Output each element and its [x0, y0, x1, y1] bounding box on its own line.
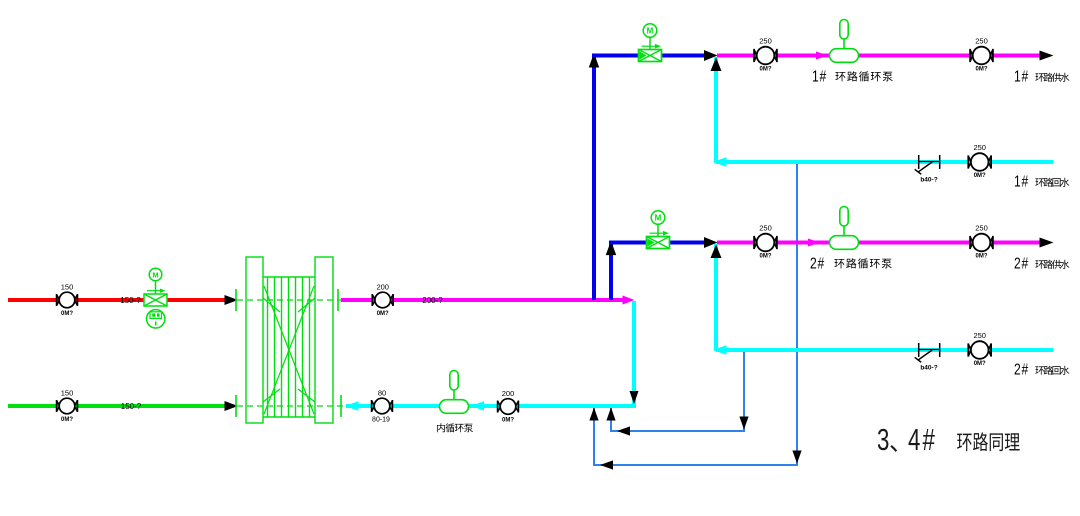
svg-text:2#: 2#: [1014, 360, 1029, 378]
pipe: drop from header to pump suction (cyan): [632, 301, 636, 406]
pipe label 150-?: [121, 402, 142, 411]
svg-text:200: 200: [376, 283, 389, 292]
pipe: primary return (green): [8, 404, 225, 408]
flow arrow up into loop 1 junction: [711, 58, 722, 72]
svg-text:4: 4: [908, 423, 921, 457]
svg-text:150-?: 150-?: [121, 402, 142, 411]
valve DN200 on suction line: [498, 389, 519, 424]
svg-text:0M?: 0M?: [760, 67, 772, 73]
svg-text:250: 250: [975, 224, 988, 233]
svg-text:2#: 2#: [1014, 254, 1029, 272]
flow arrow left at loop 2 return corner: [713, 345, 727, 355]
svg-text:150: 150: [61, 389, 74, 398]
motorized control valve with positioner on hot supply: [144, 268, 167, 328]
svg-text:b40-?: b40-?: [920, 365, 937, 372]
label: loop 1 supply water: [1014, 67, 1069, 85]
svg-text:3: 3: [877, 423, 889, 457]
flow arrow left on bypass line 2: [617, 426, 630, 435]
label: loop 1 return water: [1014, 172, 1069, 190]
flow arrow up riser 2: [606, 241, 616, 256]
valve DN250 loop 2 supply (pump inlet): [754, 224, 777, 260]
flow arrow into loop 1 pump (magenta): [816, 52, 828, 60]
bypass line from loop-2 return to mixing header (thin blue): [611, 350, 744, 431]
pipe: loop 2 supply after junction (magenta): [717, 241, 1040, 245]
label: loop 2 circulation pump: [810, 254, 892, 272]
svg-text:250: 250: [759, 37, 772, 46]
svg-text:250: 250: [973, 331, 986, 340]
pipe: loop 1 supply (blue): [592, 54, 704, 58]
flow arrow into heat exchanger (cold side outlet): [225, 401, 239, 411]
svg-text:80-19: 80-19: [372, 417, 390, 424]
pipe: loop 2 return (cyan): [716, 348, 1053, 352]
flow arrow down on bypass line 2: [739, 417, 748, 430]
svg-text:0M?: 0M?: [974, 173, 986, 179]
pipe: internal circulation suction line (cyan): [346, 404, 636, 408]
svg-text:M: M: [152, 270, 158, 279]
loop 1 circulation pump: [830, 20, 859, 63]
pipe: loop 1 return (cyan): [716, 160, 1053, 164]
valve DN200 on outlet header: [372, 283, 393, 318]
svg-text:250: 250: [759, 224, 772, 233]
pipe: loop 1 supply after junction (magenta): [717, 54, 1040, 58]
flow arrow at loop 2 mixing junction: [704, 237, 718, 248]
svg-text:0M?: 0M?: [760, 254, 772, 260]
svg-text:200: 200: [502, 389, 515, 398]
pipe label 200-?: [422, 296, 443, 305]
valve DN150 on primary return: [57, 389, 78, 424]
strainer on loop 2 return: [915, 343, 940, 372]
valve DN250 loop 1 supply (pump outlet): [970, 37, 993, 73]
svg-text:200-?: 200-?: [422, 296, 443, 305]
valve DN250 loop 1 supply (pump inlet): [754, 37, 777, 73]
svg-text:0M?: 0M?: [974, 361, 986, 367]
flow arrow loop 2 supply outlet: [1040, 238, 1054, 248]
svg-text:1#: 1#: [812, 67, 827, 85]
svg-text:250: 250: [975, 37, 988, 46]
flow arrow into loop 2 pump (magenta): [808, 239, 820, 247]
flow arrow left on bypass line 1: [600, 460, 613, 469]
flow arrow into heat exchanger (cyan): [345, 401, 359, 411]
note: loops 3 and 4 are similar: [877, 423, 1020, 457]
svg-text:0M?: 0M?: [502, 418, 514, 424]
svg-text:2#: 2#: [810, 254, 825, 272]
motorized control valve loop 1: [639, 24, 662, 62]
pipe: loop 1 return riser at junction (cyan): [714, 57, 718, 162]
flow arrow up into suction header (bypass 1): [589, 408, 598, 421]
svg-text:1#: 1#: [1014, 172, 1029, 190]
svg-text:1#: 1#: [1014, 67, 1029, 85]
svg-text:#: #: [923, 423, 936, 457]
flow arrow up riser 1: [589, 53, 599, 68]
flow arrow up into suction header (bypass 2): [606, 408, 615, 421]
flow arrow into heat exchanger (hot side): [225, 295, 239, 305]
flow arrow down on bypass line 1: [792, 451, 801, 464]
label: loop 1 circulation pump: [812, 67, 893, 85]
flow arrow loop 1 supply outlet: [1040, 51, 1054, 61]
valve DN80 on suction line: [372, 389, 393, 424]
svg-text:150: 150: [61, 283, 74, 292]
svg-text:0M?: 0M?: [377, 311, 389, 317]
internal circulation pump: [440, 371, 469, 414]
svg-text:0M?: 0M?: [61, 417, 73, 423]
pipe: supply riser to loop 2 (blue): [609, 241, 613, 300]
label: loop 2 return water: [1014, 360, 1069, 378]
flow arrow at loop 1 mixing junction: [704, 50, 718, 61]
svg-text:0M?: 0M?: [976, 67, 988, 73]
loop 2 circulation pump: [830, 207, 859, 250]
pipe: primary hot supply (red): [8, 298, 225, 302]
motorized control valve loop 2: [647, 211, 670, 249]
flow arrow into pump (cyan): [471, 401, 484, 411]
svg-text:0M?: 0M?: [976, 254, 988, 260]
strainer on loop 1 return: [915, 155, 940, 184]
flow arrow down into suction line: [630, 391, 639, 404]
svg-text:b40-?: b40-?: [920, 177, 937, 184]
valve DN250 loop 1 return: [968, 143, 991, 179]
valve DN150 on hot supply: [57, 283, 78, 318]
flow arrow on outlet header end: [623, 296, 635, 305]
valve DN250 loop 2 supply (pump outlet): [970, 224, 993, 260]
pipe: heat exchanger outlet header DN200 (magenta): [341, 298, 623, 302]
valve DN250 loop 2 return: [968, 331, 991, 367]
svg-text:80: 80: [378, 389, 386, 398]
pipe: loop 2 supply (blue): [609, 241, 704, 245]
pipe label 150-?: [120, 296, 141, 305]
svg-text:150-?: 150-?: [120, 296, 141, 305]
plate heat exchanger: [236, 257, 344, 423]
pipe: loop 2 return riser at junction (cyan): [714, 244, 718, 350]
label: loop 2 supply water: [1014, 254, 1069, 272]
svg-text:250: 250: [973, 143, 986, 152]
svg-text:0M?: 0M?: [61, 311, 73, 317]
pipe: supply riser to loop 1 (blue): [592, 54, 596, 300]
flow arrow up into loop 2 junction: [711, 245, 722, 259]
label: internal circulation pump: [437, 423, 473, 432]
bypass line from loop-1 return to mixing header (thin blue): [594, 162, 797, 465]
flow arrow left at loop 1 return corner: [713, 157, 727, 167]
